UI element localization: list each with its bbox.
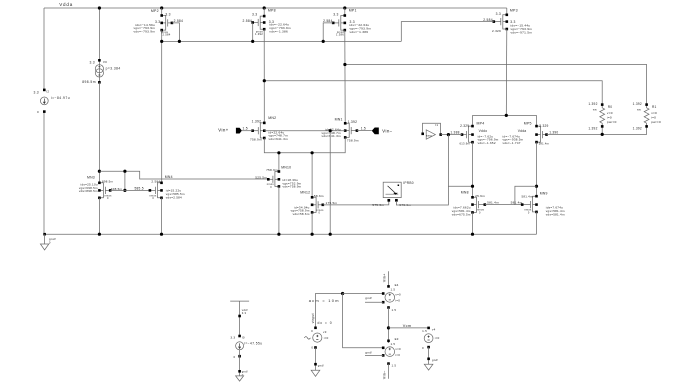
transistor MP4 [462, 126, 473, 142]
svg-text:0: 0 [422, 346, 424, 350]
svg-text:3.3: 3.3 [496, 12, 501, 16]
svg-text:i=0: i=0 [435, 336, 440, 340]
svg-text:MN9: MN9 [540, 192, 548, 196]
svg-text:v3: v3 [323, 330, 327, 334]
wire MN12 source to ground rail [311, 212, 313, 234]
wire bar to MP5 source [536, 115, 538, 126]
svg-text:585.5: 585.5 [135, 186, 144, 190]
ground below I0 [236, 376, 244, 381]
wire Vin+ stub to E4 [388, 271, 390, 286]
node on Vdda rail at MP8 [263, 6, 266, 9]
node on Vdda rail at V0 [98, 6, 101, 9]
svg-text:1.5: 1.5 [243, 127, 248, 131]
svg-text:vds=581.4m: vds=581.4m [546, 212, 565, 216]
svg-text:gnd!: gnd! [318, 364, 324, 368]
svg-text:0: 0 [311, 329, 313, 333]
ground below v4 [424, 364, 433, 370]
node on Vdda rail at MP1 [343, 6, 346, 9]
resistor R0 [600, 105, 605, 127]
svg-text:I1: I1 [435, 123, 438, 127]
node bus at MP1 gate drop [322, 40, 325, 43]
transistor MN1 [345, 123, 357, 137]
svg-text:vinput: vinput [311, 313, 315, 323]
svg-text:Vin+: Vin+ [218, 128, 228, 133]
svg-text:pwr=0: pwr=0 [607, 120, 617, 124]
wire IPRB0 right terminal to feedback node [396, 186, 448, 205]
wire bar to MP4 source [472, 115, 474, 126]
transistor MN12 [312, 197, 323, 212]
wire node to E4 control [343, 293, 384, 295]
wire MP3 drain to MP4 MP5 sources [505, 29, 508, 115]
wire MN9 source to ground rail corner [536, 212, 538, 234]
wire E3 minus control to gnd label [365, 354, 383, 356]
wire I0 to ground [239, 350, 241, 376]
svg-text:vds=−793.9m: vds=−793.9m [134, 30, 156, 34]
svg-text:898.5m: 898.5m [102, 179, 113, 183]
svg-text:IPRB0: IPRB0 [403, 181, 413, 185]
svg-text:3.3: 3.3 [34, 90, 39, 94]
svg-text:581.4m: 581.4m [539, 141, 550, 145]
svg-text:vds=58.6m: vds=58.6m [293, 212, 310, 216]
node bus at MP2 drain [160, 40, 163, 43]
svg-text:vds=758.9m: vds=758.9m [283, 185, 302, 189]
svg-text:Vin−: Vin− [382, 128, 392, 133]
svg-text:1.388: 1.388 [450, 131, 459, 135]
svg-text:1.5: 1.5 [361, 127, 366, 131]
node ground rail MN8 [471, 233, 474, 236]
svg-text:2.584: 2.584 [151, 179, 160, 183]
svg-text:1.392: 1.392 [633, 102, 642, 106]
svg-text:1.5: 1.5 [422, 329, 427, 333]
svg-text:2.584: 2.584 [242, 19, 252, 23]
svg-text:1.5: 1.5 [391, 288, 396, 292]
svg-text:vds=−971.5m: vds=−971.5m [511, 30, 533, 34]
controlled source E4 [385, 293, 395, 303]
wire rail to MP8 source [263, 8, 265, 16]
wire MP1 drain to MN1 drain [344, 30, 346, 123]
wire MN8 gate to MN9 gate [485, 204, 522, 206]
wire E3 to Vin- stub [388, 364, 390, 379]
svg-text:R1: R1 [652, 105, 657, 109]
svg-text:MP2: MP2 [151, 9, 159, 13]
svg-text:Vcm: Vcm [403, 324, 412, 328]
svg-text:2.584: 2.584 [483, 18, 493, 22]
svg-text:I0: I0 [242, 335, 245, 339]
svg-text:i=−47.55u: i=−47.55u [244, 342, 262, 346]
svg-text:vds=−1.386: vds=−1.386 [350, 30, 369, 34]
wire E4 to E3 [388, 308, 390, 344]
node stimulus split [341, 292, 344, 295]
svg-text:0: 0 [311, 345, 313, 349]
svg-text:gnd!: gnd! [365, 296, 372, 300]
supply symbol vdd! [230, 300, 249, 302]
node tail at MN10 [277, 151, 280, 154]
transistor MP1 [333, 16, 345, 31]
svg-text:0: 0 [234, 355, 236, 359]
svg-text:581.4m: 581.4m [522, 195, 533, 199]
transistor MP2 [162, 16, 172, 31]
transistor MN8 [473, 197, 485, 212]
node MP1 drain branch [343, 63, 346, 66]
svg-text:MP3: MP3 [510, 8, 518, 12]
svg-text:MN4: MN4 [165, 175, 173, 179]
wire E4 minus control to gnd label [365, 301, 383, 303]
wire tail to MN12 drain [311, 153, 313, 198]
transistor MN4 [150, 183, 162, 198]
node output at R0 bottom [601, 133, 604, 136]
wire node to E3 control [343, 294, 384, 348]
svg-text:2.584: 2.584 [323, 19, 333, 23]
svg-text:vds=641.3m: vds=641.3m [269, 137, 289, 141]
voltage source V0 [95, 65, 103, 73]
svg-text:Vin+: Vin+ [383, 273, 387, 282]
svg-text:1.5: 1.5 [392, 364, 397, 368]
svg-text:R0: R0 [608, 105, 613, 109]
wire MP8 drain to MN2 drain [263, 29, 265, 123]
node MP8 drain branch [263, 79, 266, 82]
node diode tie bottom [123, 189, 126, 192]
wire to ground symbol [44, 234, 46, 244]
pin Vin+ [236, 128, 242, 134]
node ground rail MN4 [160, 233, 163, 236]
svg-text:MN8: MN8 [461, 190, 469, 194]
svg-text:1.392: 1.392 [255, 32, 263, 36]
wire PMOS gate bias bus [162, 40, 402, 42]
node ground rail MN3 [98, 233, 101, 236]
svg-text:1.392: 1.392 [588, 127, 597, 131]
node feedback at MP4 gate [447, 133, 450, 136]
pin symbol I1 amp [423, 123, 441, 134]
wire MN4 source to ground rail [161, 198, 163, 234]
controlled source E3 [385, 347, 395, 357]
wire MN9 diode tie to gate bus [515, 186, 537, 204]
wire v4 to ground [428, 347, 430, 364]
svg-text:MP5: MP5 [524, 121, 532, 125]
svg-text:1.392: 1.392 [633, 127, 642, 131]
svg-text:58.6m: 58.6m [314, 194, 324, 198]
wire MP4 drain to MN8 drain [472, 142, 474, 197]
wire v3 to ground [315, 348, 317, 371]
svg-text:3.3: 3.3 [242, 311, 247, 315]
svg-text:1.392: 1.392 [252, 120, 262, 124]
svg-text:pwr=0: pwr=0 [651, 120, 661, 124]
svg-text:MN12: MN12 [300, 190, 310, 194]
svg-text:amp: amp [426, 133, 432, 137]
svg-text:vds=−1.652: vds=−1.652 [478, 141, 496, 145]
probe IPRB0 [383, 182, 401, 197]
label v3 values [304, 337, 310, 340]
wire Vdda rail [44, 7, 507, 9]
svg-text:Vddo: Vddo [479, 129, 488, 133]
wire rail end to MP3 source [506, 8, 508, 15]
node Vcm [387, 326, 390, 329]
transistor MN10 [268, 172, 279, 187]
wire Vdda to V0 [98, 8, 100, 60]
voltage source v3 vinput [313, 333, 322, 342]
svg-text:vds=2.584: vds=2.584 [166, 195, 182, 199]
svg-text:2.329: 2.329 [539, 124, 548, 128]
svg-text:2.329: 2.329 [460, 124, 469, 128]
svg-text:v4: v4 [432, 328, 436, 332]
svg-text:175.5m: 175.5m [326, 201, 338, 205]
wire R0 bottom stub [601, 126, 603, 134]
svg-text:3.3: 3.3 [252, 13, 257, 17]
svg-text:V0: V0 [103, 60, 107, 64]
svg-text:ww: ww [593, 109, 597, 112]
wire MP5 gate to R1 bottom [547, 126, 647, 134]
wire ground rail [44, 233, 537, 235]
wire I2 to ground rail [43, 112, 45, 235]
node ground rail MN10 [277, 233, 280, 236]
wire MP8 drain node to R0 [264, 81, 602, 105]
ground gnd! [40, 244, 48, 250]
svg-text:MN10: MN10 [281, 166, 291, 170]
svg-text:MP1: MP1 [349, 9, 357, 13]
svg-text:gnd!: gnd! [49, 237, 56, 241]
svg-text:3.3: 3.3 [230, 335, 235, 339]
svg-text:ww: ww [637, 109, 641, 112]
wire MP4 MP5 common source bar [473, 114, 537, 116]
transistor MP8 [253, 16, 265, 29]
svg-text:gnd!: gnd! [432, 358, 438, 362]
svg-text:1.5: 1.5 [392, 308, 397, 312]
wire MN3 source to ground rail [98, 198, 100, 234]
svg-text:MN1: MN1 [335, 118, 343, 122]
transistor MP5 [537, 126, 547, 142]
svg-text:acm = 10m: acm = 10m [309, 298, 340, 303]
svg-text:581.4m: 581.4m [487, 201, 499, 205]
svg-text:i=0: i=0 [607, 116, 612, 120]
wire MN2 bulk to MN1 bulk [264, 130, 345, 132]
transistor MN3 [99, 183, 110, 198]
wire tail to MN10 drain [278, 153, 280, 172]
wire rail to MP2 source [161, 8, 163, 16]
node ground rail bulk drop [329, 233, 332, 236]
svg-text:vds=−1.386: vds=−1.386 [269, 29, 288, 33]
wire MN8 source to ground rail [472, 212, 474, 234]
svg-text:2.329: 2.329 [492, 29, 501, 33]
svg-text:i=−84.97u: i=−84.97u [51, 96, 70, 100]
svg-text:MN2: MN2 [268, 116, 276, 120]
wire Vin+ to MN2 gate [242, 130, 253, 132]
svg-text:1.392: 1.392 [588, 102, 597, 106]
svg-text:E3: E3 [395, 337, 399, 341]
wire MN3 gate to MN4 gate [110, 189, 150, 191]
wire vdd bar to I0 [239, 301, 241, 336]
node MN9 drain diode tie [535, 185, 538, 188]
svg-text:581.4m: 581.4m [511, 201, 523, 205]
svg-text:vds=675.5m: vds=675.5m [452, 212, 471, 216]
svg-text:i=0: i=0 [395, 353, 400, 357]
svg-text:613.9m: 613.9m [460, 141, 471, 145]
svg-text:Vin−: Vin− [383, 370, 387, 379]
node MN8 drain feedback [471, 185, 474, 188]
transistor MN2 [253, 123, 265, 138]
wire MP5 drain to MN9 drain [536, 142, 538, 196]
ground below v3 [311, 370, 320, 376]
wire V0 to MN3 drain [98, 82, 100, 183]
svg-text:i=0: i=0 [651, 116, 656, 120]
wire MP2 gate to bias bus [172, 23, 180, 42]
wire diff pair tail [264, 137, 345, 152]
svg-text:i=0: i=0 [324, 336, 329, 340]
svg-text:1.5: 1.5 [391, 342, 396, 346]
svg-text:575.6m: 575.6m [372, 203, 384, 207]
svg-text:3.3: 3.3 [333, 13, 338, 17]
pin Vin- [372, 128, 379, 135]
node MP3 drain at bar [505, 114, 508, 117]
wire Vcm to v4 [389, 327, 429, 329]
wire feedback down to MN8 drain [448, 135, 472, 187]
wire MP2 drain to MN4 drain [161, 30, 163, 183]
svg-text:MN3: MN3 [87, 175, 95, 179]
wire rail to MP1 source [344, 8, 346, 16]
svg-text:E4: E4 [395, 283, 399, 287]
svg-text:1.386: 1.386 [336, 33, 344, 37]
svg-text:3.3: 3.3 [165, 13, 170, 17]
svg-text:3.3: 3.3 [89, 60, 94, 64]
svg-text:v=0: v=0 [395, 347, 401, 351]
svg-text:p=3.384: p=3.384 [106, 66, 121, 70]
svg-text:i=0: i=0 [395, 299, 400, 303]
svg-text:0: 0 [49, 241, 51, 245]
current source I0 [236, 342, 244, 350]
wire amp to MP4 gate [441, 134, 462, 136]
svg-text:MP8: MP8 [268, 9, 276, 13]
svg-text:v=0: v=0 [395, 293, 401, 297]
svg-text:525.5m: 525.5m [255, 176, 267, 180]
svg-text:v=0: v=0 [607, 111, 613, 115]
svg-text:2.584: 2.584 [163, 33, 171, 37]
svg-text:2.584: 2.584 [174, 19, 184, 23]
svg-text:758.9m: 758.9m [250, 137, 262, 141]
transistor MN9 [522, 196, 536, 212]
wire MP1 drain node to R1 [345, 65, 647, 105]
node on Vdda rail at MP2 [160, 6, 163, 9]
node tail at MN12 [311, 151, 314, 154]
node bus at MP2 gate drop [178, 40, 181, 43]
wire MP8 gate to bias bus [252, 23, 254, 42]
svg-text:1.390: 1.390 [549, 130, 558, 134]
svg-text:gnd!: gnd! [365, 351, 372, 355]
voltage source v4 [424, 334, 433, 343]
wire Vdda to I2 [43, 8, 45, 90]
wire MN12 gate to IPRB0 left terminal [323, 201, 389, 205]
node bus at MP8 gate drop [251, 40, 254, 43]
svg-text:0: 0 [37, 110, 39, 114]
svg-text:v=0: v=0 [651, 111, 657, 115]
wire vinput to E4 node [316, 294, 343, 328]
svg-text:vds=898.5m: vds=898.5m [79, 189, 98, 193]
current source I2 [40, 97, 48, 105]
svg-text:1.392: 1.392 [348, 120, 358, 124]
svg-text:vds=641.3m: vds=641.3m [321, 134, 341, 138]
wire MP1 gate to bias bus [323, 23, 333, 42]
wire MP3 gate to bias bus [401, 22, 494, 42]
svg-text:758.9m: 758.9m [266, 168, 278, 172]
node diode tie top [123, 170, 126, 173]
node V0 MN3 drain branch [98, 170, 101, 173]
svg-text:MP4: MP4 [477, 121, 485, 125]
svg-text:25.9m: 25.9m [475, 194, 485, 198]
svg-text:Vdda: Vdda [518, 129, 527, 133]
node ground rail MN12 [311, 233, 314, 236]
node bulk wire [329, 129, 332, 132]
wire MN10 source to ground rail [278, 186, 280, 234]
wire diode tie to gate bus [124, 171, 126, 190]
svg-text:758.9m: 758.9m [347, 139, 359, 143]
wire MN1 gate to Vin- [357, 130, 372, 132]
wire MN3 drain node to MN10 gate [99, 171, 268, 179]
svg-text:I2: I2 [46, 89, 49, 93]
svg-text:dc = 0: dc = 0 [318, 321, 333, 325]
svg-text:3.3: 3.3 [155, 20, 160, 24]
svg-text:698.5m: 698.5m [111, 187, 122, 191]
transistor MP3 [494, 15, 507, 29]
svg-text:898.5m: 898.5m [82, 80, 96, 84]
svg-text:vds=−1.747: vds=−1.747 [503, 141, 521, 145]
svg-text:Vdda: Vdda [59, 2, 73, 7]
wire bulk node to ground rail [329, 131, 331, 235]
resistor R1 [644, 105, 649, 127]
